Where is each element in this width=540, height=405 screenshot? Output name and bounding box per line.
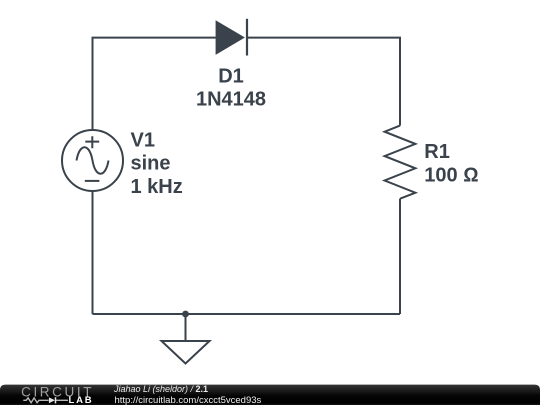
diode D1 bbox=[216, 19, 248, 56]
CircuitLab logo diode bbox=[49, 397, 68, 403]
ground symbol bbox=[162, 341, 210, 364]
label R1 100 ohm bbox=[424, 141, 478, 187]
svg-text:D1: D1 bbox=[218, 65, 244, 87]
wire from V1 bottom pin to bottom-left corner bbox=[92, 192, 94, 315]
svg-text:Jiahao Li (sheldor) / 2.1: Jiahao Li (sheldor) / 2.1 bbox=[113, 384, 208, 394]
wire from V1 top pin to top-left corner and to diode anode bbox=[93, 38, 216, 130]
svg-text:R1: R1 bbox=[424, 141, 450, 163]
wire bottom net from bottom-left corner to bottom-right corner bbox=[93, 313, 401, 315]
svg-text:1N4148: 1N4148 bbox=[196, 89, 266, 111]
voltage source V1 (sine) bbox=[62, 130, 123, 191]
node junction dot on ground net bbox=[182, 311, 189, 318]
footer bar bbox=[0, 385, 540, 405]
svg-text:LAB: LAB bbox=[69, 395, 94, 405]
wire from resistor R1 bottom pin to bottom-right corner bbox=[399, 199, 401, 314]
resistor R1 bbox=[385, 126, 416, 199]
svg-text:1 kHz: 1 kHz bbox=[131, 176, 183, 198]
svg-text:http://circuitlab.com/cxcct5vc: http://circuitlab.com/cxcct5vced93s bbox=[115, 395, 262, 405]
svg-text:100 Ω: 100 Ω bbox=[424, 165, 478, 187]
svg-text:sine: sine bbox=[131, 153, 171, 175]
wire from diode cathode to top-right corner down to resistor R1 top pin bbox=[247, 38, 400, 126]
label D1 1N4148 bbox=[196, 65, 266, 110]
CircuitLab logo resistor zigzag bbox=[23, 398, 48, 403]
label V1 sine 1 kHz bbox=[131, 129, 183, 197]
svg-text:V1: V1 bbox=[131, 129, 155, 151]
wire ground stem bbox=[185, 314, 187, 340]
